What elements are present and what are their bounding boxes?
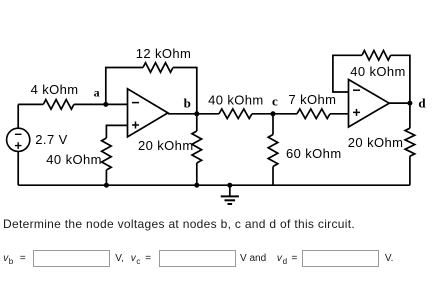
svg-text:60 kOhm: 60 kOhm (286, 146, 342, 161)
svg-text:b: b (184, 96, 192, 111)
svg-text:40 kOhm: 40 kOhm (208, 92, 264, 107)
svg-text:20 kOhm: 20 kOhm (348, 135, 404, 150)
svg-text:2.7 V: 2.7 V (35, 132, 67, 147)
svg-text:c: c (272, 94, 278, 109)
svg-text:a: a (94, 85, 100, 99)
svg-text:7 kOhm: 7 kOhm (289, 92, 337, 107)
svg-text:12 kOhm: 12 kOhm (136, 46, 192, 61)
svg-text:40 kOhm: 40 kOhm (350, 64, 406, 79)
svg-text:20 kOhm: 20 kOhm (138, 138, 194, 153)
svg-text:d: d (418, 96, 426, 111)
svg-text:40 kOhm: 40 kOhm (46, 152, 102, 167)
svg-text:4 kOhm: 4 kOhm (31, 82, 79, 97)
